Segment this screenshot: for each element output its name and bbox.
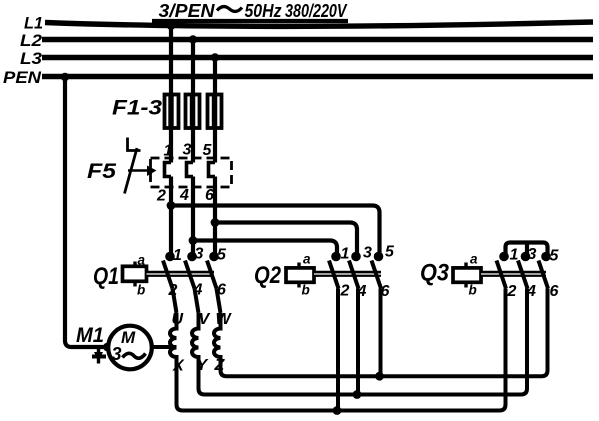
svg-text:2: 2 [156, 188, 166, 205]
svg-text:b: b [137, 283, 145, 298]
svg-text:5: 5 [550, 248, 560, 265]
svg-text:3: 3 [112, 344, 122, 364]
svg-text:6: 6 [381, 283, 390, 300]
svg-text:V: V [199, 311, 211, 328]
svg-text:1: 1 [510, 247, 519, 264]
svg-text:3: 3 [183, 142, 192, 159]
svg-text:2: 2 [168, 282, 178, 299]
svg-text:6: 6 [217, 282, 226, 299]
svg-text:a: a [470, 252, 478, 267]
svg-text:1: 1 [173, 247, 182, 264]
svg-text:3: 3 [363, 245, 372, 262]
svg-text:380/220V: 380/220V [285, 1, 348, 21]
svg-text:W: W [216, 311, 233, 328]
svg-text:Q2: Q2 [254, 262, 282, 289]
svg-text:X: X [172, 358, 185, 375]
svg-text:M: M [121, 328, 136, 347]
svg-text:3: 3 [528, 246, 537, 263]
svg-text:5: 5 [385, 244, 395, 261]
svg-text:b: b [302, 283, 310, 298]
svg-text:1: 1 [164, 143, 173, 160]
svg-text:50Hz: 50Hz [245, 1, 282, 21]
svg-text:L1: L1 [24, 14, 43, 33]
svg-text:L2: L2 [20, 31, 43, 50]
svg-text:F5: F5 [87, 160, 116, 183]
svg-text:4: 4 [179, 187, 189, 204]
svg-text:Y: Y [197, 357, 209, 374]
svg-text:6: 6 [550, 283, 559, 300]
svg-text:2: 2 [507, 283, 517, 300]
svg-text:U: U [172, 311, 184, 328]
svg-text:M1: M1 [76, 324, 104, 347]
svg-text:F1-3: F1-3 [112, 97, 162, 120]
svg-text:Z: Z [214, 357, 226, 374]
svg-text:2: 2 [340, 283, 350, 300]
svg-text:5: 5 [203, 142, 213, 159]
svg-text:5: 5 [217, 247, 227, 264]
svg-text:4: 4 [193, 282, 203, 299]
svg-text:3/PEN: 3/PEN [159, 1, 216, 21]
svg-text:b: b [469, 283, 477, 298]
svg-text:4: 4 [526, 283, 536, 300]
svg-text:Q1: Q1 [93, 263, 119, 290]
svg-text:PEN: PEN [3, 68, 42, 87]
svg-text:a: a [138, 253, 146, 268]
svg-text:Q3: Q3 [420, 260, 450, 287]
svg-text:3: 3 [195, 246, 204, 263]
svg-text:6: 6 [205, 187, 214, 204]
svg-text:L3: L3 [20, 49, 43, 68]
svg-text:a: a [303, 252, 311, 267]
svg-text:1: 1 [341, 246, 350, 263]
svg-text:4: 4 [357, 283, 367, 300]
